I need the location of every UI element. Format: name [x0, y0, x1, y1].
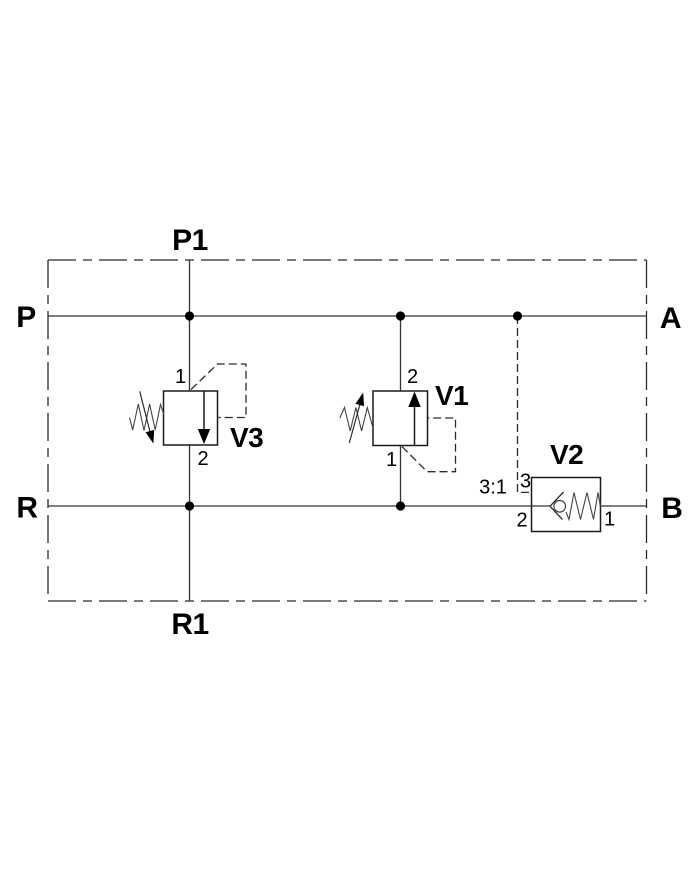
valve V3 body: [164, 391, 218, 445]
valve V3 spring: [130, 404, 164, 431]
svg-text:B: B: [661, 492, 682, 525]
svg-text:1: 1: [386, 449, 397, 471]
valve V2 spring: [566, 493, 601, 520]
svg-text:P: P: [16, 301, 36, 334]
enclosure border right (dash-dot): [646, 260, 648, 601]
valve V1 body: [373, 391, 428, 446]
node P1/P junction: [185, 311, 194, 320]
wire V1 port 1 to R line: [400, 445, 402, 506]
enclosure border left (dash-dot): [47, 260, 49, 601]
svg-text:V2: V2: [550, 439, 583, 470]
svg-text:V3: V3: [230, 422, 263, 453]
svg-text:P1: P1: [172, 224, 208, 257]
valve V1 spring: [340, 408, 373, 432]
valve V2 ball: [554, 501, 566, 513]
valve V2 seat: [550, 492, 564, 506]
svg-text:2: 2: [407, 366, 418, 388]
valve V3 spring adjust arrow: [140, 391, 150, 431]
valve V3 pilot line (dashed): [191, 364, 246, 418]
valve V2 body: [532, 478, 601, 532]
valve V1 spring adjust arrow: [349, 404, 360, 443]
node V1/P junction: [396, 311, 405, 320]
enclosure border top (dash-dot): [48, 259, 647, 261]
node V1/R junction: [396, 501, 405, 510]
svg-text:1: 1: [604, 509, 615, 531]
valve V3 flow arrow (down): [203, 391, 205, 430]
svg-text:2: 2: [516, 510, 527, 532]
svg-text:2: 2: [197, 448, 208, 470]
svg-text:A: A: [660, 302, 681, 335]
wire P1 to V3 port 1: [189, 260, 191, 391]
valve V1 flow arrow (up): [414, 407, 416, 446]
svg-text:V1: V1: [435, 380, 468, 411]
node V3/R junction: [185, 501, 194, 510]
pilot line P to V2 port 3 (dashed): [518, 316, 532, 492]
svg-text:3: 3: [520, 471, 531, 493]
wire R-B: [48, 505, 550, 507]
wire P line to V1 port 2: [400, 316, 402, 391]
svg-text:3:1: 3:1: [479, 477, 507, 499]
node V2 pilot/P junction: [513, 311, 522, 320]
enclosure border bottom (dash-dot): [48, 600, 647, 602]
svg-text:R: R: [16, 492, 38, 525]
wire V3 port 2 to R1: [189, 445, 191, 601]
svg-text:R1: R1: [171, 608, 208, 641]
valve V2 inlet segment: [532, 505, 551, 507]
svg-text:1: 1: [175, 366, 186, 388]
valve V1 pilot line (dashed): [402, 418, 456, 472]
wire P-A: [48, 315, 647, 317]
